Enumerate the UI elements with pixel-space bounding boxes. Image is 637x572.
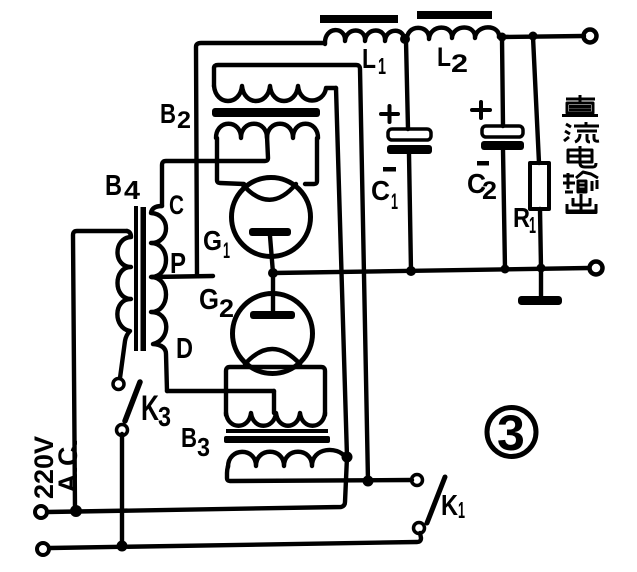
label B4	[105, 170, 141, 205]
svg-text:3: 3	[158, 401, 171, 432]
label G2	[199, 284, 234, 323]
svg-text:2: 2	[177, 107, 191, 134]
wire B2 filament frame left	[217, 138, 244, 184]
svg-text:1: 1	[223, 238, 230, 263]
node C2 branch	[498, 33, 507, 42]
wire R1 top lead	[533, 37, 539, 163]
label C1	[371, 175, 398, 214]
transformer B2 primary winding	[214, 86, 336, 101]
svg-text:3: 3	[497, 405, 525, 461]
svg-text:A.C.: A.C.	[53, 439, 83, 493]
label C2	[467, 168, 497, 205]
svg-text:K: K	[441, 490, 458, 522]
transformer B2 inner wire from primary left end	[214, 65, 368, 481]
wire R1 bottom lead	[540, 209, 541, 268]
label DC output chinese: 流	[564, 122, 599, 142]
svg-text:3: 3	[197, 432, 210, 462]
tube G1 plate	[249, 228, 291, 236]
transformer B4 secondary winding	[151, 206, 167, 391]
label 220V A.C.	[29, 436, 83, 499]
label C1 minus	[383, 167, 396, 172]
wire B2 center tap to C	[162, 136, 268, 206]
wire P tap horizontal overshoot	[152, 276, 213, 277]
label K3	[141, 389, 171, 432]
label L1	[362, 43, 386, 79]
node C2 bottom	[501, 265, 510, 274]
label L2	[437, 42, 468, 78]
svg-text:1: 1	[529, 212, 536, 238]
svg-text:B: B	[105, 170, 122, 202]
label C2 plus	[472, 102, 490, 118]
svg-text:C: C	[371, 175, 390, 206]
label B3	[181, 422, 210, 462]
wire bottom output rail	[273, 268, 589, 273]
svg-text:1: 1	[378, 53, 386, 79]
switch K3	[113, 379, 140, 547]
transformer B4 core	[134, 206, 138, 351]
label K1	[441, 490, 465, 523]
svg-text:P: P	[170, 248, 186, 280]
label DC output chinese: 电	[568, 146, 596, 167]
svg-text:K: K	[141, 389, 159, 428]
svg-text:G: G	[203, 225, 222, 256]
capacitor C2	[481, 126, 524, 150]
tube G2 plate	[250, 311, 295, 319]
svg-text:D: D	[176, 333, 193, 365]
label R1	[513, 202, 536, 238]
node R1 branch	[529, 32, 538, 41]
label C tap	[169, 190, 184, 220]
svg-text:4: 4	[124, 175, 141, 205]
label G1	[203, 225, 230, 263]
svg-text:B: B	[181, 422, 197, 453]
wire outer top: P-node vertical up and across to L1 input	[196, 43, 325, 276]
label C1 plus	[381, 106, 398, 122]
tube G1 filament arc	[243, 184, 296, 200]
svg-text:L: L	[362, 43, 376, 74]
svg-text:1: 1	[391, 189, 398, 214]
svg-text:2: 2	[482, 177, 497, 205]
resistor R1	[530, 163, 549, 209]
wire C1 top lead	[406, 41, 408, 129]
inductor L2 core bar	[417, 11, 492, 19]
terminal AC 2	[37, 543, 49, 555]
wire G2 plate stem	[271, 273, 275, 311]
inductor L2	[407, 27, 499, 40]
label DC output chinese: 出	[567, 194, 596, 213]
node C1 bottom	[406, 266, 416, 276]
inductor L1 core bar	[320, 15, 398, 23]
svg-text:R: R	[513, 202, 530, 233]
node L1-L2 junction	[400, 34, 410, 44]
svg-text:C: C	[169, 190, 184, 220]
node B3 right end	[342, 452, 353, 463]
transformer B3 primary winding	[228, 450, 345, 467]
label DC output chinese: 输	[563, 172, 598, 192]
inductor L1	[325, 30, 404, 44]
node R1 bottom	[537, 264, 546, 273]
ground	[518, 268, 562, 305]
wire D tap to B3 center	[167, 389, 274, 393]
tube G1	[232, 178, 311, 257]
terminal DC out -	[590, 262, 603, 275]
transformer B4 primary winding	[117, 231, 131, 378]
wire G1 plate stem	[270, 236, 273, 273]
svg-text:1: 1	[458, 497, 465, 523]
node plates junction	[268, 268, 278, 278]
svg-text:2: 2	[219, 295, 234, 323]
wire B2 filament frame right	[305, 138, 317, 184]
wire mains rail 2	[50, 533, 421, 548]
transformer B3 core	[224, 429, 330, 443]
svg-text:B: B	[160, 98, 176, 129]
wire B3 primary left end	[227, 466, 412, 481]
wire top rail to output	[499, 36, 584, 37]
wire B4 primary top lead	[73, 231, 127, 509]
transformer B3 filament winding	[226, 413, 325, 426]
wire C2 bottom lead	[503, 150, 505, 269]
tube G2	[233, 294, 313, 374]
tube G2 filament arc	[245, 349, 300, 364]
terminal DC out +	[584, 30, 597, 43]
node inner-rect vertical bottom	[363, 476, 374, 487]
svg-text:2: 2	[451, 50, 468, 78]
wire B3 center tap	[272, 391, 276, 413]
terminal AC 1	[35, 506, 47, 518]
switch K1	[412, 475, 446, 534]
label B2	[160, 98, 191, 134]
svg-text:L: L	[437, 42, 451, 72]
svg-text:G: G	[199, 284, 219, 316]
label figure number 3	[487, 405, 536, 461]
label C2 minus	[477, 161, 489, 166]
node rail1 B4 branch	[70, 505, 82, 517]
capacitor C1	[387, 129, 432, 154]
label P tap	[170, 248, 186, 280]
node rail2 K3 branch	[117, 541, 128, 552]
wire C2 top lead	[502, 38, 503, 126]
transformer B2 filament winding	[216, 124, 318, 138]
label D tap	[176, 333, 193, 365]
transformer B3 filament frame	[226, 367, 325, 415]
wire mains rail 1	[47, 457, 347, 512]
wire C1 bottom lead	[409, 154, 411, 271]
label DC output chinese: 直	[562, 95, 598, 116]
transformer B2 core	[212, 108, 320, 117]
wire B2 primary right end long vertical	[336, 88, 347, 457]
